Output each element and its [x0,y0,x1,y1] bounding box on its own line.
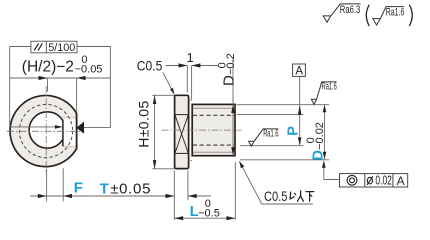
svg-text:0: 0 [205,198,211,210]
svg-text:C0.5: C0.5 [264,188,288,204]
svg-text:F: F [74,179,83,196]
svg-text:A: A [295,65,303,77]
svg-text:1: 1 [187,50,194,65]
svg-text:0.02: 0.02 [375,174,392,188]
svg-text:0: 0 [305,137,317,143]
svg-text:Ra1.6: Ra1.6 [263,128,278,139]
svg-text:Ra1.6: Ra1.6 [322,82,337,93]
svg-text:D: D [310,150,326,160]
svg-text:5/100: 5/100 [48,42,75,54]
svg-text:0: 0 [81,54,87,66]
svg-text:P: P [285,126,301,136]
svg-text:(H/2)−2: (H/2)−2 [22,59,74,76]
svg-text:T: T [100,180,109,197]
svg-text:±0.05: ±0.05 [110,180,151,197]
svg-text:H±0.05: H±0.05 [135,100,151,147]
svg-text:D: D [221,75,238,86]
svg-text:−0.05: −0.05 [75,63,103,75]
svg-text:Ra1.6: Ra1.6 [386,7,405,19]
svg-text:A: A [397,174,405,188]
svg-text:C0.5: C0.5 [137,57,163,73]
svg-text:Ra6.3: Ra6.3 [340,4,361,16]
svg-text:−0.02: −0.02 [314,122,326,150]
